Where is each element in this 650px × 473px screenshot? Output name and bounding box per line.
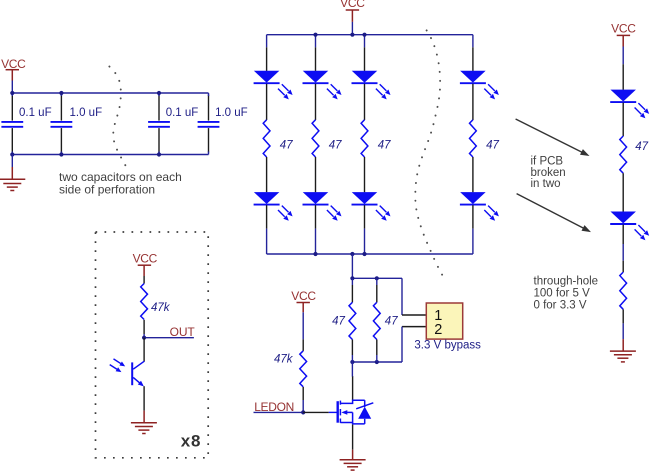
- wire phototransistor emitter to ground: [143, 386, 145, 410]
- transistor Q2 phototransistor: [110, 359, 145, 387]
- node cap C1 top rail: [10, 91, 14, 95]
- wire LED D2a cathode to resistor R2: [315, 84, 317, 120]
- svg-text:0.1 uF: 0.1 uF: [166, 107, 199, 119]
- node matrix top rail: [350, 33, 354, 37]
- svg-text:VCC: VCC: [291, 289, 316, 303]
- perforation dotted line (cap section): [109, 67, 125, 166]
- node LEDON junction: [301, 410, 305, 414]
- wire LED D5b to resistor R10: [622, 244, 624, 261]
- wire resistor R10 top pin: [622, 261, 624, 273]
- node matrix top rail: [362, 33, 366, 37]
- svg-text:47: 47: [385, 316, 398, 328]
- resistor R2 47: [312, 120, 342, 157]
- wire LED D1b cathode pin: [266, 205, 268, 228]
- wire LED D3a anode pin: [364, 47, 366, 71]
- wire VCC stub to matrix top rail: [351, 22, 353, 35]
- node matrix bottom rail: [313, 252, 317, 256]
- LED D5a: [610, 90, 649, 119]
- wire resistor R7 top pin: [302, 339, 304, 351]
- wire LED D4a anode pin: [472, 47, 474, 71]
- svg-text:100 for 5 V: 100 for 5 V: [534, 287, 591, 299]
- node matrix bottom rail: [362, 252, 366, 256]
- svg-text:VCC: VCC: [133, 252, 158, 266]
- LED D2a: [303, 71, 342, 100]
- wire column 3 top stub: [364, 35, 366, 48]
- wire resistor R8 bottom pin: [143, 320, 145, 334]
- wire resistor R2 to LED D2b: [315, 157, 317, 192]
- annotation arrow 2 (if PCB broken): [517, 194, 591, 233]
- svg-text:in two: in two: [531, 178, 561, 190]
- wire LED D2a anode pin: [315, 47, 317, 71]
- wire column 1 top stub: [266, 35, 268, 48]
- power symbol VCC (cap section): [1, 57, 26, 81]
- ground (sensor cell): [131, 411, 157, 434]
- svg-text:broken: broken: [531, 167, 566, 179]
- wire branch bottom horizontal: [352, 361, 402, 363]
- LED D2b: [303, 192, 342, 221]
- LED D5b: [610, 212, 649, 241]
- svg-text:47: 47: [280, 139, 293, 151]
- wire VCC to resistor R7: [302, 312, 304, 339]
- wire connector pin 2 riser: [401, 327, 403, 362]
- wire matrix bottom rail to branch node: [351, 254, 353, 278]
- wire MOSFET source to ground: [352, 425, 354, 450]
- wire matrix top rail: [267, 34, 473, 36]
- node branch top: [375, 276, 379, 280]
- capacitor C1 0.1 uF: [1, 93, 51, 155]
- svg-text:VCC: VCC: [340, 0, 365, 10]
- ground (single strand): [610, 339, 636, 362]
- node OUT junction: [142, 336, 146, 340]
- wire VCC to resistor R8: [143, 276, 145, 284]
- wire VCC stub to top rail: [11, 81, 13, 94]
- wire resistor R9 to LED D5b: [622, 173, 624, 212]
- resistor R5 47 (left parallel): [332, 278, 356, 362]
- node branch bottom: [375, 360, 379, 364]
- node cap C2 bottom rail: [59, 152, 63, 156]
- wire top rail (cap section): [12, 92, 208, 94]
- resistor R8 47k: [141, 284, 171, 320]
- power symbol VCC (47k pulldown): [291, 289, 316, 312]
- wire column 2 bottom stub: [315, 229, 317, 254]
- wire LED D3b cathode pin: [364, 205, 366, 228]
- svg-text:47: 47: [332, 316, 345, 328]
- wire LED D3a cathode to resistor R3: [364, 84, 366, 120]
- wire resistor R10 bottom pin: [622, 309, 624, 323]
- LED D1a: [254, 71, 293, 100]
- wire to OUT node: [143, 334, 145, 338]
- LED D3a: [352, 71, 391, 100]
- node cap C3 bottom rail: [157, 152, 161, 156]
- power symbol VCC (LED matrix): [340, 0, 365, 22]
- svg-text:47: 47: [329, 139, 342, 151]
- note: through-hole resistor value: [534, 276, 599, 312]
- wire column 1 bottom stub: [266, 229, 268, 254]
- resistor R4 47: [470, 120, 500, 157]
- wire LEDON to MOSFET gate: [303, 411, 329, 413]
- resistor R9 47: [620, 136, 649, 173]
- svg-text:47k: 47k: [151, 302, 171, 314]
- ground (MOSFET source): [340, 450, 366, 470]
- svg-text:3.3 V bypass: 3.3 V bypass: [414, 339, 481, 351]
- svg-text:VCC: VCC: [1, 57, 26, 71]
- wire branch top horizontal: [352, 277, 402, 279]
- LED D3b: [352, 192, 391, 221]
- wire bottom rail (cap section): [12, 154, 208, 156]
- wire connector pin 1 lead: [402, 314, 427, 316]
- resistor R7 47k: [274, 351, 307, 387]
- capacitor C3 0.1 uF: [148, 93, 198, 155]
- svg-text:47k: 47k: [274, 354, 294, 366]
- perforation dotted line (LED matrix): [415, 30, 442, 275]
- node cap C2 top rail: [59, 91, 63, 95]
- svg-text:if PCB: if PCB: [531, 156, 564, 168]
- resistor R10 (through-hole): [620, 272, 627, 309]
- wire OUT net: [144, 337, 194, 339]
- svg-text:through-hole: through-hole: [534, 276, 599, 288]
- wire matrix bottom rail: [267, 253, 473, 255]
- node cap C1 bottom rail: [10, 152, 14, 156]
- node matrix bottom rail: [350, 252, 354, 256]
- power symbol VCC (single strand): [611, 22, 636, 47]
- wire column 3 bottom stub: [364, 229, 366, 254]
- wire to ground (single strand): [622, 323, 624, 339]
- resistor R1 47: [263, 120, 293, 157]
- connector J1 3.3 V bypass: [426, 303, 462, 339]
- wire phototransistor collector pin: [143, 338, 145, 362]
- wire resistor R7 to LEDON node: [302, 400, 304, 412]
- wire column 4 bottom stub: [472, 229, 474, 254]
- wire resistor R1 to LED D1b: [266, 157, 268, 192]
- svg-text:47: 47: [378, 139, 391, 151]
- LED D4b: [460, 192, 499, 221]
- transistor Q1 N-MOSFET with body diode: [329, 400, 374, 424]
- node branch bottom: [350, 360, 354, 364]
- note: two capacitors on each side of perforation: [59, 170, 182, 196]
- wire LED D4a cathode to resistor R4: [472, 84, 474, 120]
- wire connector pin 2 lead: [402, 326, 427, 328]
- wire column 2 top stub: [315, 35, 317, 48]
- svg-text:47: 47: [635, 141, 648, 153]
- LED D4a: [460, 71, 499, 100]
- wire resistor R4 to LED D4b: [472, 157, 474, 192]
- wire MOSFET drain pin: [352, 376, 354, 400]
- svg-text:47: 47: [486, 139, 499, 151]
- wire resistor R3 to LED D3b: [364, 157, 366, 192]
- capacitor C4 1.0 uF: [198, 93, 248, 155]
- wire column 4 top stub: [472, 35, 474, 48]
- svg-text:VCC: VCC: [611, 22, 636, 36]
- node matrix top rail: [313, 33, 317, 37]
- svg-text:1.0 uF: 1.0 uF: [215, 107, 248, 119]
- wire LED D4b cathode pin: [472, 205, 474, 228]
- wire LED D5a cathode to resistor R9: [622, 103, 624, 137]
- svg-text:x8: x8: [181, 432, 202, 451]
- wire LEDON net: [254, 411, 304, 413]
- node cap C3 top rail: [157, 91, 161, 95]
- ground (cap section): [0, 155, 25, 191]
- capacitor C2 1.0 uF: [51, 93, 103, 155]
- node branch top: [350, 276, 354, 280]
- wire LED D5a anode pin: [622, 64, 624, 90]
- power symbol VCC (sensor cell): [133, 252, 158, 276]
- resistor R6 47 (right parallel): [373, 278, 398, 362]
- LED D1b: [254, 192, 293, 221]
- svg-text:0.1 uF: 0.1 uF: [19, 107, 52, 119]
- annotation arrow 1 (if PCB broken): [516, 119, 590, 156]
- resistor R3 47: [361, 120, 391, 157]
- wire LED D1a cathode to resistor R1: [266, 84, 268, 120]
- svg-text:side of perforation: side of perforation: [59, 183, 155, 197]
- wire VCC to LED D5a: [622, 47, 624, 65]
- wire LED D5b cathode pin: [622, 225, 624, 244]
- svg-text:0 for 3.3 V: 0 for 3.3 V: [534, 299, 587, 311]
- note: if PCB broken in two: [531, 156, 566, 191]
- wire LED D1a anode pin: [266, 47, 268, 71]
- svg-text:1.0 uF: 1.0 uF: [70, 107, 103, 119]
- dotted box (x8 sensor cell): [96, 232, 209, 458]
- wire resistor R7 bottom pin: [302, 387, 304, 400]
- wire connector pin 1 riser: [401, 278, 403, 315]
- svg-text:2: 2: [434, 322, 442, 338]
- wire LED D2b cathode pin: [315, 205, 317, 228]
